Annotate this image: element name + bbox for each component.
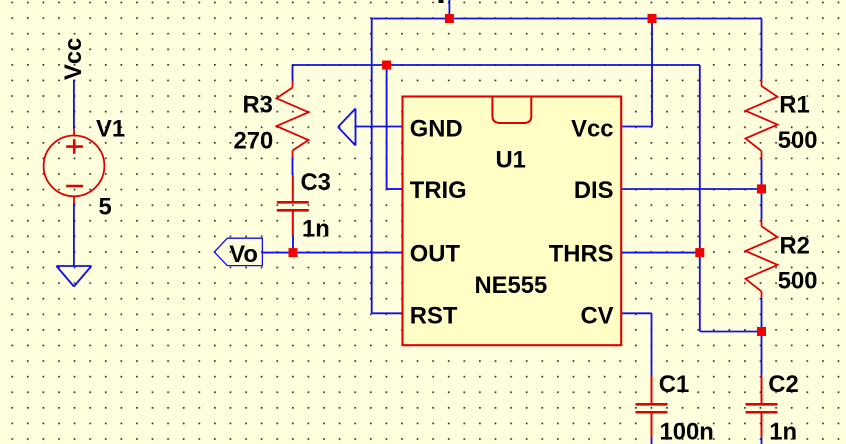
voltage source V1 [44,129,105,203]
IC U1 (NE555 timer body) [401,94,623,349]
svg-text:DIS: DIS [574,177,614,204]
wire middle vertical (rail to bottom) [699,65,701,332]
svg-text:NE555: NE555 [475,272,548,299]
resistor R3 [277,81,309,158]
wire R2 bottom [761,298,763,332]
wire TRIG horizontal [387,188,402,190]
svg-text:TRIG: TRIG [410,177,467,204]
svg-text:Vcc: Vcc [571,115,613,142]
junction at Vo / C3 / OUT [289,248,298,257]
wire right vertical to R1 [761,19,763,80]
node Vcc flag remnant [439,0,444,3]
wire R1 bottom [761,159,763,189]
wire Vcc pin vertical [651,19,653,127]
svg-text:OUT: OUT [410,240,461,267]
svg-text:V1: V1 [96,116,125,143]
wire R3 to C3 [292,158,294,176]
wire Vcc flag stub [448,0,450,19]
wire DIS horizontal [622,188,762,190]
wire RST horizontal [372,312,402,314]
junction at Vcc pin vertical [648,14,657,23]
svg-text:500: 500 [778,268,818,295]
capacitor C1 [636,376,668,438]
wire THRS horizontal [622,252,700,254]
svg-text:270: 270 [234,127,274,154]
svg-text:1n: 1n [302,215,330,242]
junction at Vcc flag stub [445,14,454,23]
capacitor C2 [746,376,778,438]
wire R3 top stub [292,65,294,81]
svg-text:500: 500 [778,127,818,154]
svg-text:THRS: THRS [549,240,614,267]
svg-text:CV: CV [580,302,613,329]
svg-text:GND: GND [410,115,463,142]
svg-text:1n: 1n [769,419,797,444]
junction at TRIG vertical on rail [382,61,391,70]
wire R2 top [761,189,763,220]
wire OUT horizontal [262,252,402,254]
wire CV vertical to C1 [651,313,653,376]
wire C2 top [761,332,763,376]
svg-text:R2: R2 [780,233,810,260]
net flag Vo [214,238,262,265]
wire V1 bottom [73,203,75,266]
junction at R2 bottom / C2 [757,327,766,336]
svg-text:C1: C1 [659,371,689,398]
junction at THRS [695,248,704,257]
resistor R2 [746,220,778,298]
wire TRIG vertical [386,65,388,189]
svg-text:5: 5 [99,194,112,221]
junction at DIS / R1 / R2 [757,184,766,193]
wire C1 bottom [651,438,653,444]
wire bottom horizontal to R2 [700,331,762,333]
wire left vertical (top rail to RST) [371,19,373,314]
svg-text:U1: U1 [496,146,526,173]
wire C2 bottom [761,438,763,444]
svg-text:Vo: Vo [229,241,258,268]
wire top rail [372,18,762,20]
svg-text:100n: 100n [660,419,714,444]
ground (left arrow at GND pin) [338,109,356,146]
ground (below V1) [56,266,91,287]
svg-text:RST: RST [410,302,458,329]
wire V1 top [73,80,75,129]
svg-text:Vcc: Vcc [60,38,87,80]
svg-text:C3: C3 [301,169,331,196]
capacitor C3 [277,175,309,236]
wire C3 bottom stub [292,236,294,253]
wire CV horizontal [622,312,652,314]
svg-text:R1: R1 [779,91,809,118]
svg-text:C2: C2 [768,371,798,398]
wire Vcc pin horizontal [622,126,653,128]
resistor R1 [746,80,778,159]
wire second rail [293,64,700,66]
wire GND horizontal [356,126,403,128]
svg-text:R3: R3 [243,92,273,119]
